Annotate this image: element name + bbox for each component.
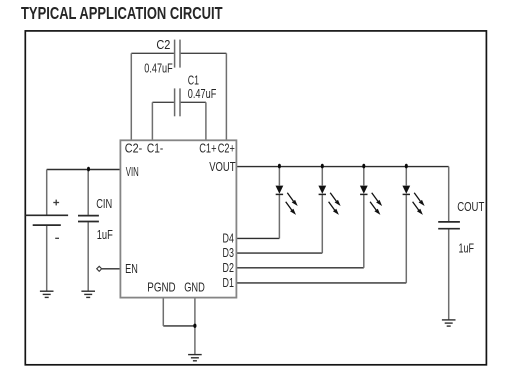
svg-text:PGND: PGND — [147, 280, 175, 294]
svg-text:D1: D1 — [223, 276, 234, 290]
svg-text:C2-: C2- — [125, 142, 142, 156]
svg-text:1uF: 1uF — [97, 228, 113, 242]
svg-text:C1-: C1- — [147, 142, 163, 156]
svg-text:C1: C1 — [188, 73, 199, 87]
svg-text:C1+: C1+ — [199, 142, 216, 156]
svg-text:1uF: 1uF — [459, 241, 475, 255]
svg-text:C2: C2 — [156, 38, 170, 52]
svg-text:0.47uF: 0.47uF — [144, 62, 173, 76]
svg-text:VOUT: VOUT — [209, 160, 236, 174]
svg-text:COUT: COUT — [457, 200, 484, 214]
svg-text:C2+: C2+ — [218, 142, 235, 156]
svg-text:D4: D4 — [223, 231, 234, 245]
svg-text:0.47uF: 0.47uF — [188, 87, 217, 101]
svg-text:CIN: CIN — [96, 197, 112, 211]
svg-text:GND: GND — [184, 280, 205, 294]
svg-text:D3: D3 — [223, 246, 234, 260]
svg-text:VIN: VIN — [126, 165, 139, 179]
svg-text:D2: D2 — [223, 261, 234, 275]
svg-text:EN: EN — [125, 262, 138, 276]
svg-text:TYPICAL APPLICATION CIRCUIT: TYPICAL APPLICATION CIRCUIT — [21, 3, 223, 23]
